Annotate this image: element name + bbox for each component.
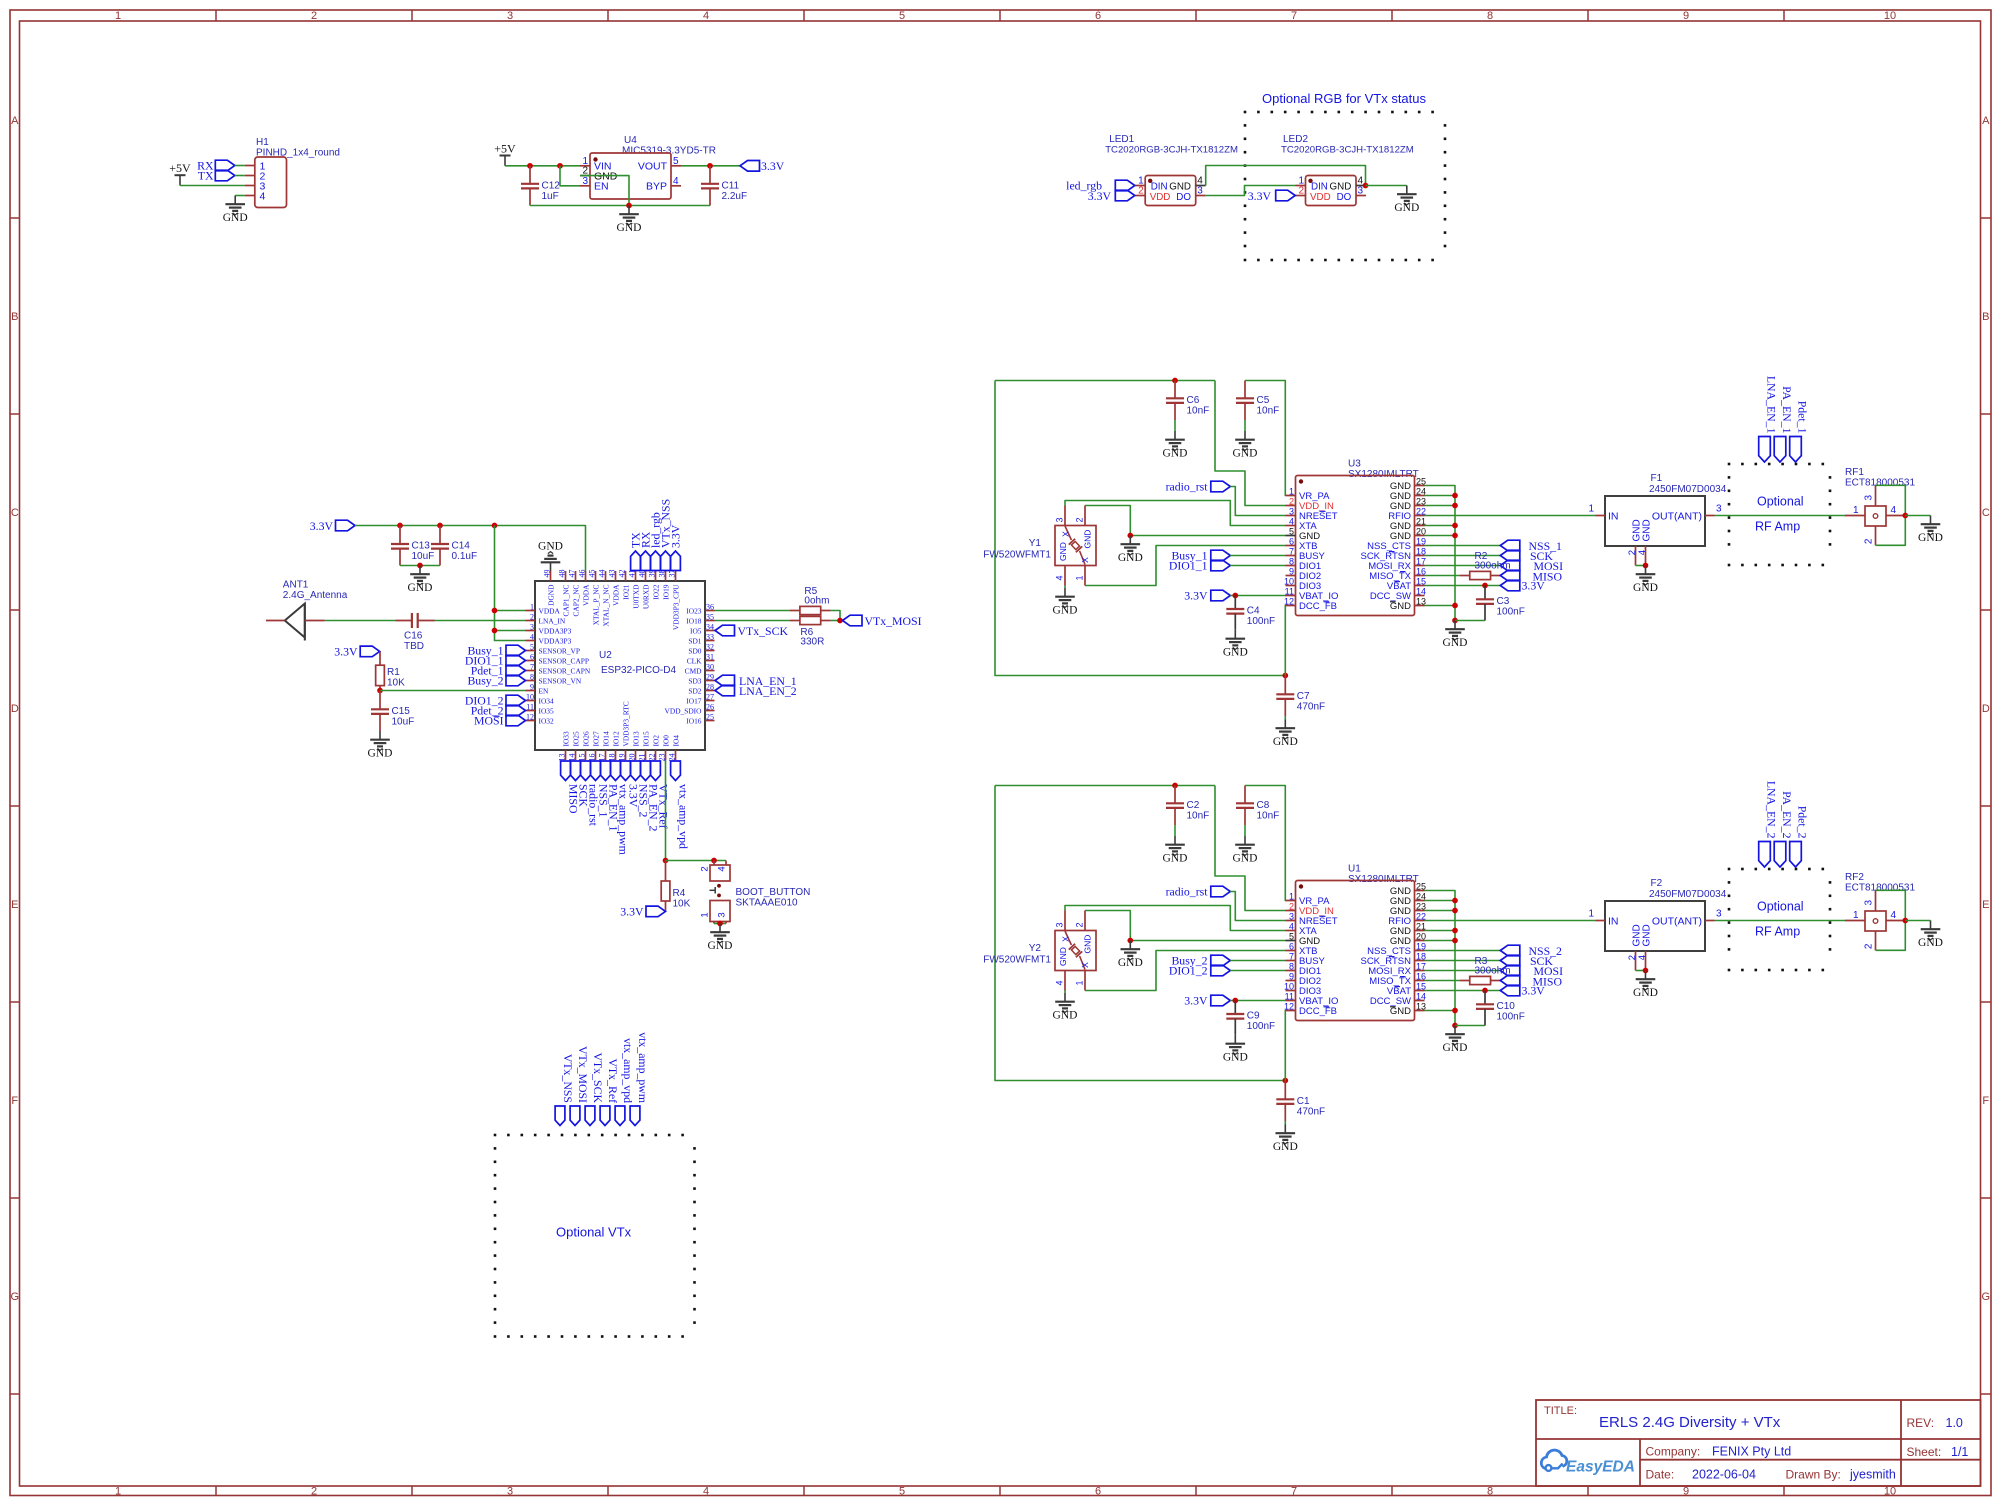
svg-text:LED1: LED1 [1109, 134, 1134, 145]
svg-text:DCC_FB: DCC_FB [1299, 601, 1337, 612]
ground (RF2) [1918, 921, 1943, 950]
ground (C5) [1233, 431, 1258, 460]
wire [1425, 910, 1456, 912]
svg-text:7: 7 [530, 663, 534, 672]
Company field [1646, 1445, 1792, 1459]
wire [1244, 825, 1246, 836]
svg-text:XTAL_P_NC: XTAL_P_NC [591, 584, 600, 625]
svg-text:25: 25 [706, 713, 714, 722]
junction (IO0/R4/boot) [663, 858, 669, 864]
net flag VTx_SCK [715, 624, 788, 638]
net flag LNA_EN_2 (RF amp) [1759, 781, 1779, 867]
ground (H1 pin4) [223, 196, 248, 225]
svg-text:C4: C4 [1247, 606, 1260, 617]
wire crystal XTA [1065, 501, 1286, 526]
wire [1425, 920, 1596, 922]
junction (F1 gnd) [1643, 563, 1649, 569]
svg-text:10: 10 [1284, 576, 1294, 586]
wire [1455, 1025, 1485, 1027]
svg-text:GND: GND [1642, 519, 1653, 541]
wire RF loop bottom [1876, 516, 1906, 546]
wire [495, 610, 526, 612]
wire GND rail (right of chip) [1425, 891, 1456, 1026]
svg-text:VDDA: VDDA [611, 584, 620, 606]
REV field [1907, 1416, 1963, 1430]
svg-text:vtx_amp_vpd: vtx_amp_vpd [677, 784, 691, 849]
svg-text:3.3V: 3.3V [761, 159, 785, 173]
net flag SCK (U1) [1500, 954, 1553, 968]
wire [1064, 586, 1066, 589]
antenna ANT1 2.4G_Antenna [266, 580, 348, 641]
svg-text:A: A [11, 115, 19, 127]
svg-text:GND: GND [1443, 1042, 1468, 1054]
capacitor C15 [371, 691, 414, 732]
wire [1425, 515, 1596, 517]
svg-text:C6: C6 [1187, 395, 1200, 406]
junction (LED2 GND) [1363, 183, 1369, 189]
svg-text:U4: U4 [624, 135, 637, 146]
svg-text:TITLE:: TITLE: [1544, 1405, 1577, 1417]
wire VDD_IN net [1215, 786, 1286, 911]
svg-text:D: D [1982, 703, 1990, 715]
svg-text:10: 10 [1884, 1486, 1896, 1498]
net flag MISO (U1) [1500, 975, 1562, 989]
dotted box: Optional RF Amp [1728, 463, 1832, 567]
wire [495, 630, 526, 632]
wire [1425, 495, 1456, 497]
svg-text:4: 4 [1289, 516, 1294, 526]
wire radio_rst to NRESET [1230, 487, 1285, 516]
svg-text:3.3V: 3.3V [1248, 189, 1272, 203]
svg-text:PA_EN_1: PA_EN_1 [1780, 386, 1794, 434]
net flag Busy_1 (U3) [1171, 549, 1230, 563]
net flag 3.3V (LED1) [1088, 189, 1135, 203]
svg-text:1uF: 1uF [542, 191, 559, 202]
net flag PA_EN_1 (RF amp) [1774, 386, 1794, 462]
ground (C2) [1163, 836, 1188, 865]
svg-text:33: 33 [706, 633, 714, 642]
svg-text:GND: GND [1390, 1006, 1411, 1017]
Date field [1646, 1468, 1896, 1482]
net flag NSS_1 (U2 bottom) [591, 761, 611, 818]
wire [1425, 605, 1456, 607]
ground (U3 rail) [1443, 621, 1468, 650]
label: Optional RF Amp [1755, 900, 1804, 939]
svg-text:DIO1_2: DIO1_2 [1169, 964, 1208, 978]
wire 3.3V to R1 [379, 651, 381, 660]
svg-text:10nF: 10nF [1187, 810, 1210, 821]
svg-text:1: 1 [1075, 980, 1085, 985]
svg-text:100nF: 100nF [1247, 616, 1275, 627]
svg-text:100nF: 100nF [1497, 1011, 1525, 1022]
svg-text:GND: GND [1273, 1141, 1298, 1153]
svg-text:6: 6 [1095, 1486, 1101, 1498]
svg-text:8: 8 [1289, 556, 1294, 566]
wire [560, 166, 580, 186]
wire [665, 760, 667, 861]
svg-text:RF2: RF2 [1845, 872, 1864, 883]
svg-text:MIC5319-3.3YD5-TR: MIC5319-3.3YD5-TR [622, 146, 716, 157]
junction (C2 top rail) [1172, 783, 1178, 789]
wire [435, 620, 526, 622]
net flag led_rgb [1066, 179, 1135, 193]
net flag RX [197, 159, 235, 173]
net flag vtx_amp_vpd (VTx box) [615, 1038, 635, 1125]
push button BOOT_BUTTON SKTAAAE010 [700, 861, 811, 924]
svg-text:6: 6 [1289, 941, 1294, 951]
svg-text:Date:: Date: [1646, 1468, 1675, 1482]
wire [1064, 991, 1066, 994]
svg-text:SKTAAAE010: SKTAAAE010 [736, 898, 799, 909]
wire [1425, 505, 1456, 507]
svg-text:SENSOR_CAPP: SENSOR_CAPP [539, 656, 590, 665]
svg-text:GND: GND [1083, 935, 1093, 954]
net flag TX [198, 169, 235, 183]
svg-text:C15: C15 [392, 706, 411, 717]
svg-text:GND: GND [1642, 924, 1653, 946]
svg-text:3.3V: 3.3V [620, 905, 644, 919]
svg-text:VTx_MOSI: VTx_MOSI [865, 614, 922, 628]
svg-text:3: 3 [582, 176, 588, 187]
svg-text:VDD: VDD [1150, 192, 1171, 203]
svg-text:U2: U2 [599, 650, 612, 661]
svg-text:C9: C9 [1247, 1011, 1260, 1022]
wire [380, 690, 526, 692]
net flag Pdet_2 (U2) [471, 704, 526, 718]
svg-text:1: 1 [530, 603, 534, 612]
ground (LED) [1394, 186, 1419, 215]
capacitor C13 [391, 526, 434, 566]
svg-text:TC2020RGB-3CJH-TX1812ZM: TC2020RGB-3CJH-TX1812ZM [1281, 145, 1414, 156]
svg-text:1.0: 1.0 [1946, 1416, 1963, 1430]
svg-text:2: 2 [1138, 186, 1144, 197]
net flag vtx_amp_pwm (VTx box) [630, 1032, 650, 1125]
svg-text:2: 2 [1289, 901, 1294, 911]
svg-text:3: 3 [1716, 504, 1722, 515]
svg-text:6: 6 [1095, 10, 1101, 22]
title block [1536, 1400, 1981, 1486]
svg-text:GND: GND [538, 541, 563, 553]
net flag NSS_2 (U1) [1500, 944, 1562, 958]
net flag 3.3V (U3 VBAT) [1500, 579, 1545, 593]
capacitor C11 [701, 166, 747, 206]
svg-text:RF Amp: RF Amp [1755, 520, 1800, 534]
wire RF loop bottom [1876, 921, 1906, 951]
svg-text:7: 7 [1289, 546, 1294, 556]
svg-text:4: 4 [1891, 505, 1897, 516]
svg-text:9: 9 [1683, 10, 1689, 22]
junction (F2 gnd) [1643, 968, 1649, 974]
net flag radio_rst (U1) [1166, 885, 1231, 899]
dotted box: Optional RGB for VTx status [1244, 111, 1447, 262]
svg-text:SD2: SD2 [688, 686, 701, 695]
wire VR_PA net [1245, 381, 1286, 496]
capacitor C5 [1236, 381, 1279, 421]
svg-text:IO33: IO33 [561, 731, 570, 746]
wire [1425, 585, 1501, 587]
wire [1425, 970, 1501, 972]
svg-text:DO: DO [1337, 192, 1352, 203]
antenna connector RF2 ECT818000531 [1845, 872, 1915, 950]
svg-text:F: F [11, 1095, 18, 1107]
wire [1425, 950, 1501, 952]
net flag PA_EN_1 (U2 bottom) [601, 761, 621, 832]
svg-text:GND: GND [1223, 1052, 1248, 1064]
svg-text:IN: IN [1608, 916, 1619, 928]
svg-text:SX1280IMLTRT: SX1280IMLTRT [1348, 874, 1419, 885]
svg-text:Optional: Optional [1757, 495, 1804, 509]
net flag 3.3V (U1 VBAT_IO) [1184, 994, 1230, 1008]
svg-text:9: 9 [1683, 1486, 1689, 1498]
svg-text:B: B [11, 311, 18, 323]
wire R5 out [831, 611, 840, 621]
svg-text:Optional VTx: Optional VTx [556, 1225, 632, 1240]
svg-text:VDD3P3_CPU: VDD3P3_CPU [671, 584, 680, 630]
resistor R2 [1460, 551, 1511, 580]
svg-text:6: 6 [1289, 536, 1294, 546]
svg-text:U1: U1 [1348, 864, 1361, 875]
svg-text:IO35: IO35 [539, 706, 554, 715]
label: Optional RF Amp [1755, 495, 1804, 534]
wire GND rail (right of chip) [1425, 486, 1456, 621]
svg-text:2: 2 [700, 866, 711, 871]
svg-text:U0TXD: U0TXD [631, 584, 640, 609]
svg-text:3: 3 [507, 10, 513, 22]
svg-text:1: 1 [1853, 910, 1859, 921]
svg-text:3: 3 [1197, 186, 1203, 197]
svg-text:3.3V: 3.3V [1522, 984, 1546, 998]
svg-text:29: 29 [706, 673, 714, 682]
svg-text:GND: GND [1443, 637, 1468, 649]
ground (C8) [1233, 836, 1258, 865]
svg-text:4: 4 [1055, 575, 1065, 580]
ground (C13/C14) [408, 566, 433, 595]
svg-text:43: 43 [607, 570, 616, 578]
svg-text:GND: GND [1223, 647, 1248, 659]
svg-text:GND: GND [617, 222, 642, 234]
net flag MISO (U3) [1500, 570, 1562, 584]
net flag vtx_amp_vpd (U2 bottom) [671, 761, 691, 849]
crystal Y2 FW520WFMT1 [983, 911, 1096, 991]
net flag VTx_SCK (VTx box) [585, 1053, 605, 1126]
svg-text:100nF: 100nF [1247, 1021, 1275, 1032]
resistor R3 [1460, 956, 1511, 985]
svg-text:IO23: IO23 [686, 606, 701, 615]
wire crystal gnd to pin5 [1085, 506, 1286, 536]
svg-text:4: 4 [673, 176, 679, 187]
wire [1425, 980, 1461, 982]
svg-text:GND: GND [1233, 853, 1258, 865]
junction (C13/C14 gnd) [417, 563, 423, 569]
wire VDD_IN / DCC_FB loop [995, 786, 1285, 1081]
svg-text:GND: GND [1394, 202, 1419, 214]
net flag DIO1_1 (U2) [465, 654, 526, 668]
wire [235, 195, 245, 197]
ground (F2) [1633, 971, 1658, 1000]
svg-text:CAP1_NC: CAP1_NC [561, 584, 570, 616]
junction (gnd rail) [1452, 523, 1458, 529]
svg-text:LNA_EN_2: LNA_EN_2 [1765, 781, 1779, 839]
svg-text:Drawn By:: Drawn By: [1786, 1468, 1841, 1482]
wire [1425, 990, 1501, 992]
svg-text:0.1uF: 0.1uF [452, 551, 478, 562]
svg-text:36: 36 [706, 603, 714, 612]
svg-text:IO18: IO18 [686, 616, 701, 625]
svg-text:14: 14 [1416, 586, 1426, 596]
svg-text:IN: IN [1608, 511, 1619, 523]
antenna connector RF1 ECT818000531 [1845, 467, 1915, 545]
svg-text:IO16: IO16 [686, 716, 701, 725]
svg-text:GND: GND [708, 940, 733, 952]
net flag Busy_2 (U2) [467, 674, 525, 688]
svg-text:3: 3 [1289, 911, 1294, 921]
wire [1284, 716, 1286, 720]
junction (gnd rail bottom) [1452, 1023, 1458, 1029]
wire [666, 860, 727, 862]
svg-text:GND: GND [1058, 542, 1068, 561]
svg-text:RF1: RF1 [1845, 467, 1864, 478]
svg-text:1: 1 [115, 10, 121, 22]
regulator U4 MIC5319-3.3YD5-TR [580, 135, 716, 199]
wire [831, 620, 843, 622]
wire [1455, 620, 1485, 622]
label: Optional VTx [556, 1225, 632, 1240]
dotted box: Optional RF Amp [1728, 868, 1832, 972]
svg-text:9: 9 [530, 683, 534, 692]
junction (C6 top rail) [1172, 378, 1178, 384]
svg-text:2.2uF: 2.2uF [722, 191, 748, 202]
svg-text:SX1280IMLTRT: SX1280IMLTRT [1348, 469, 1419, 480]
svg-text:4: 4 [1891, 910, 1897, 921]
net flag Busy_2 (U1) [1171, 954, 1230, 968]
svg-text:2450FM07D0034: 2450FM07D0034 [1649, 889, 1727, 900]
svg-text:27: 27 [706, 693, 714, 702]
svg-text:TBD: TBD [404, 641, 424, 652]
svg-text:DGND: DGND [546, 584, 555, 606]
wire [1284, 606, 1286, 676]
svg-text:IO19: IO19 [661, 584, 670, 599]
svg-text:FENIX Pty Ltd: FENIX Pty Ltd [1712, 1445, 1791, 1459]
wire [1230, 565, 1285, 567]
junction (C4) [1232, 593, 1238, 599]
svg-text:3.3V: 3.3V [334, 645, 358, 659]
svg-text:ANT1: ANT1 [283, 580, 309, 591]
svg-text:3.3V: 3.3V [1184, 994, 1208, 1008]
svg-text:8: 8 [1487, 10, 1493, 22]
svg-text:3.3V: 3.3V [1088, 189, 1112, 203]
net flag SCK (U3) [1500, 549, 1553, 563]
junction (boot gnd) [717, 921, 723, 927]
svg-text:32: 32 [706, 643, 714, 652]
capacitor C9 [1226, 1001, 1275, 1035]
svg-text:2: 2 [1075, 922, 1085, 927]
wire [714, 923, 726, 925]
svg-text:6: 6 [530, 653, 534, 662]
svg-text:C7: C7 [1297, 691, 1310, 702]
wire [1174, 825, 1176, 836]
wire [995, 785, 1215, 787]
svg-text:GND: GND [1053, 1010, 1078, 1022]
svg-text:9: 9 [1289, 971, 1294, 981]
svg-text:Optional RGB for VTx status: Optional RGB for VTx status [1262, 91, 1427, 106]
svg-text:3: 3 [1358, 186, 1364, 197]
power flag +5V (H1) [169, 161, 191, 186]
wire [505, 165, 580, 167]
crystal Y1 FW520WFMT1 [983, 506, 1096, 586]
svg-text:VDD3P3_RTC: VDD3P3_RTC [621, 701, 630, 746]
net flag 3.3V (LED2) [1248, 189, 1295, 203]
wire [1230, 555, 1285, 557]
svg-text:2450FM07D0034: 2450FM07D0034 [1649, 484, 1727, 495]
net flag radio_rst (U2 bottom) [581, 761, 601, 827]
svg-text:1: 1 [1588, 909, 1594, 920]
svg-text:GND: GND [1633, 582, 1658, 594]
svg-text:IO17: IO17 [686, 696, 701, 705]
svg-text:C11: C11 [722, 180, 740, 191]
net flag VTx_Ref (VTx box) [600, 1058, 620, 1125]
junction (C10) [1482, 988, 1488, 994]
wire [1715, 515, 1846, 517]
wire [1905, 920, 1930, 922]
svg-text:35: 35 [706, 613, 714, 622]
net flag VTx_Ref (U2 bottom) [651, 761, 671, 829]
wire VDD_IN / DCC_FB loop [995, 381, 1285, 676]
svg-text:10: 10 [1884, 10, 1896, 22]
ground (C4) [1223, 630, 1248, 659]
wire [1425, 575, 1461, 577]
svg-text:RF Amp: RF Amp [1755, 925, 1800, 939]
wire [400, 565, 440, 567]
junction (C1/DCC_FB) [1282, 1078, 1288, 1084]
svg-text:34: 34 [706, 623, 714, 632]
svg-text:C3: C3 [1497, 596, 1510, 607]
wire [355, 526, 586, 572]
svg-text:3: 3 [530, 623, 534, 632]
svg-text:2: 2 [311, 10, 317, 22]
ground (C15) [368, 731, 393, 760]
wire [715, 610, 791, 612]
net flag 3.3V (R1) [334, 645, 379, 659]
net flag LNA_EN_2 [715, 684, 797, 698]
capacitor C12 [521, 166, 560, 206]
net flag MOSI (U3) [1500, 559, 1563, 573]
svg-text:TC2020RGB-3CJH-TX1812ZM: TC2020RGB-3CJH-TX1812ZM [1105, 145, 1238, 156]
net flag LNA_EN_1 [715, 674, 797, 688]
svg-text:9: 9 [1289, 566, 1294, 576]
net flag RX (U2 top) [639, 531, 653, 570]
svg-text:4: 4 [1637, 550, 1648, 555]
junction (gnd rail) [1452, 938, 1458, 944]
filter F1 2450FM07D0034 [1588, 473, 1726, 566]
svg-text:48: 48 [557, 570, 566, 578]
junction (crystal gnd) [1127, 938, 1133, 944]
svg-text:2: 2 [1863, 943, 1874, 949]
svg-text:100nF: 100nF [1497, 606, 1525, 617]
svg-text:3: 3 [1289, 506, 1294, 516]
wire [1425, 545, 1501, 547]
svg-text:IO32: IO32 [539, 716, 554, 725]
svg-text:ERLS 2.4G Diversity + VTx: ERLS 2.4G Diversity + VTx [1599, 1414, 1781, 1431]
svg-text:GND: GND [223, 212, 248, 224]
junction (C7/DCC_FB) [1282, 673, 1288, 679]
wire led1 DO to led2 DIN [1206, 186, 1296, 196]
svg-text:VDDA3P3: VDDA3P3 [539, 636, 572, 645]
wire [180, 185, 245, 187]
overline on MOSI label [494, 715, 500, 717]
wire [1425, 525, 1456, 527]
net flag VTx_NSS (U2 top) [659, 499, 673, 571]
svg-text:5: 5 [1289, 931, 1294, 941]
